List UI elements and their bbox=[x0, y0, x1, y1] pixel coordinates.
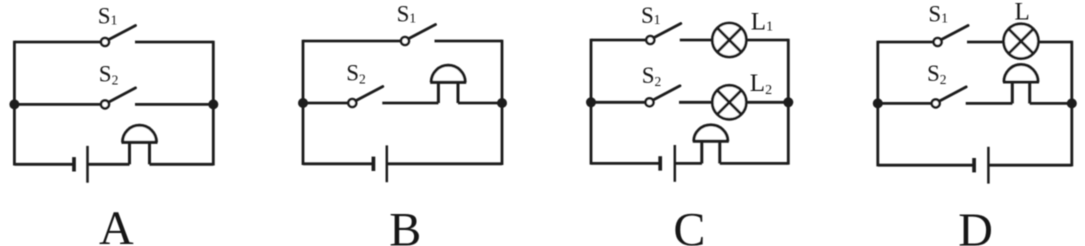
lamp L (circuit D): bulb circle bbox=[1004, 24, 1039, 59]
switch S2 (circuit B): pivot circle bbox=[348, 99, 356, 107]
circuit D: middle wire centre segment bbox=[966, 102, 1013, 105]
lamp L1 (circuit C): cross stroke 2 bbox=[717, 28, 741, 52]
lamp L2 (circuit C): cross stroke 1 bbox=[717, 90, 741, 114]
circuit B: middle wire left segment bbox=[303, 102, 348, 105]
electric bell (circuit A): dome bbox=[123, 125, 157, 142]
lamp L2 (circuit C): cross stroke 2 bbox=[717, 90, 741, 114]
switch S1 (circuit C): pivot circle bbox=[646, 36, 654, 44]
switch S1 (circuit A): blade (open) bbox=[108, 26, 135, 40]
circuit C: bottom wire right segment bbox=[720, 162, 789, 165]
svg-text:C: C bbox=[673, 204, 705, 246]
switch S1 (circuit D): blade (open) bbox=[941, 26, 968, 40]
circuit C: middle wire right segment bbox=[679, 101, 788, 104]
lamp L1 (circuit C): bulb circle bbox=[712, 23, 746, 57]
circuit D: right vertical wire bbox=[1070, 41, 1073, 167]
electric bell (circuit D): base plate bbox=[1003, 80, 1039, 83]
electric bell (circuit D): right terminal leg bbox=[1028, 82, 1031, 103]
circuit D: top wire right segment bbox=[967, 41, 1072, 44]
electric bell (circuit A): left terminal leg bbox=[128, 142, 131, 164]
electric bell (circuit B): base plate bbox=[430, 81, 466, 84]
electric bell (circuit C): base plate bbox=[693, 140, 729, 143]
battery (circuit A): short plate (negative) bbox=[72, 157, 76, 171]
circuit C: right vertical wire bbox=[787, 39, 790, 165]
circuit A: middle wire right segment bbox=[135, 103, 213, 106]
circuit B: middle wire centre segment bbox=[382, 102, 438, 105]
svg-text:B: B bbox=[389, 204, 421, 246]
node dot B-left bbox=[298, 98, 308, 108]
circuit B: bottom wire left segment bbox=[303, 162, 373, 165]
circuit C: top wire left segment bbox=[591, 39, 646, 42]
battery (circuit A): long plate (positive) bbox=[86, 146, 89, 183]
circuit B: left vertical wire bbox=[302, 40, 305, 165]
switch S2 (circuit A): blade (open) bbox=[108, 88, 135, 102]
battery (circuit C): long plate (positive) bbox=[674, 145, 677, 182]
circuit B: right vertical wire bbox=[501, 40, 504, 165]
circuit C: bottom wire middle segment bbox=[675, 162, 702, 165]
circuit D: left vertical wire bbox=[876, 41, 879, 167]
circuit B: middle wire right segment bbox=[458, 102, 502, 105]
circuit D: middle wire right segment bbox=[1030, 102, 1072, 105]
circuit D: bottom wire left segment bbox=[878, 164, 974, 167]
node dot A-left bbox=[9, 99, 19, 109]
node dot A-right bbox=[208, 99, 218, 109]
battery (circuit D): long plate (positive) bbox=[987, 147, 990, 184]
switch S2 (circuit D): pivot circle bbox=[932, 99, 940, 107]
node dot D-left bbox=[873, 98, 883, 108]
switch S1 (circuit B): blade (open) bbox=[408, 25, 435, 39]
circuit D: middle wire left segment bbox=[878, 102, 932, 105]
lamp L2 (circuit C): bulb circle bbox=[712, 85, 746, 119]
lamp L1 (circuit C): cross stroke 1 bbox=[717, 28, 741, 52]
svg-text:D: D bbox=[958, 204, 993, 246]
switch S1 (circuit B): pivot circle bbox=[401, 37, 409, 45]
electric bell (circuit B): left terminal leg bbox=[437, 82, 440, 103]
switch S2 (circuit D): blade (open) bbox=[939, 87, 966, 101]
battery (circuit C): short plate (negative) bbox=[658, 156, 662, 170]
switch S2 (circuit C): blade (open) bbox=[653, 86, 680, 100]
electric bell (circuit C): dome bbox=[694, 125, 728, 141]
circuit A: bottom wire middle segment bbox=[88, 163, 130, 166]
node dot D-right bbox=[1067, 98, 1077, 108]
circuit B: bottom wire right segment bbox=[387, 162, 502, 165]
electric bell (circuit D): dome bbox=[1004, 65, 1038, 83]
circuit C: top wire right segment bbox=[680, 39, 789, 42]
lamp L (circuit D): cross stroke 2 bbox=[1009, 29, 1034, 54]
circuit A: bottom wire left segment bbox=[14, 163, 74, 166]
electric bell (circuit D): left terminal leg bbox=[1011, 82, 1014, 103]
electric bell (circuit B): dome bbox=[431, 65, 465, 82]
switch S1 (circuit D): pivot circle bbox=[934, 38, 942, 46]
battery (circuit D): short plate (negative) bbox=[972, 158, 976, 172]
node dot C-right bbox=[783, 97, 793, 107]
circuit A: bottom wire right segment bbox=[150, 163, 214, 166]
switch S1 (circuit A): pivot circle bbox=[101, 38, 109, 46]
circuit C: bottom wire left segment bbox=[591, 162, 660, 165]
circuit A: top wire right segment bbox=[135, 41, 213, 44]
switch S2 (circuit A): pivot circle bbox=[101, 100, 109, 108]
circuit A: right vertical wire bbox=[212, 41, 215, 166]
circuit A: left vertical wire bbox=[13, 41, 16, 166]
switch S1 (circuit C): blade (open) bbox=[654, 24, 681, 38]
lamp L (circuit D): cross stroke 1 bbox=[1009, 29, 1034, 54]
svg-text:L: L bbox=[1015, 0, 1030, 25]
svg-text:A: A bbox=[99, 202, 134, 246]
circuit D: top wire left segment bbox=[878, 41, 934, 44]
circuit D: bottom wire right segment bbox=[988, 164, 1071, 167]
electric bell (circuit A): right terminal leg bbox=[148, 142, 151, 164]
switch S2 (circuit C): pivot circle bbox=[646, 98, 654, 106]
switch S2 (circuit B): blade (open) bbox=[356, 87, 383, 101]
node dot C-left bbox=[586, 97, 596, 107]
electric bell (circuit A): base plate bbox=[122, 141, 158, 144]
electric bell (circuit B): right terminal leg bbox=[457, 82, 460, 103]
circuit C: middle wire left segment bbox=[591, 101, 645, 104]
electric bell (circuit C): right terminal leg bbox=[718, 141, 721, 163]
battery (circuit B): short plate (negative) bbox=[372, 157, 376, 171]
electric bell (circuit C): left terminal leg bbox=[700, 141, 703, 163]
circuit A: top wire left segment bbox=[14, 41, 100, 44]
battery (circuit B): long plate (positive) bbox=[386, 145, 389, 182]
circuit B: top wire right segment bbox=[435, 40, 503, 43]
circuit C: left vertical wire bbox=[590, 39, 593, 165]
node dot B-right bbox=[497, 98, 507, 108]
circuit B: top wire left segment bbox=[303, 40, 401, 43]
circuit A: middle wire left segment bbox=[14, 103, 100, 106]
